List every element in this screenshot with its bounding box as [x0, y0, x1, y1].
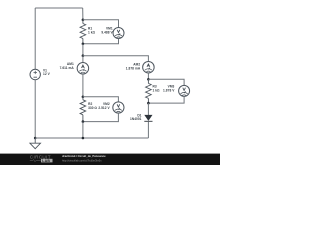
wire VM1 loop top [83, 20, 119, 28]
node R2 bottom junction [82, 120, 85, 123]
node AM row junction [82, 54, 85, 57]
label AM1 value [60, 62, 75, 70]
resistor R3 [146, 79, 152, 103]
ammeter AM2 [143, 61, 155, 73]
footer bar [0, 154, 220, 165]
svg-text:drachinisk / Circuit_de_Puissa: drachinisk / Circuit_de_Puissance [62, 154, 106, 158]
node bottom-left junction [34, 137, 37, 140]
svg-text:9.488 V: 9.488 V [101, 31, 113, 35]
wire bottom rail [35, 137, 148, 139]
label R1 value [88, 27, 96, 35]
resistor R2 [80, 97, 86, 122]
wire R2 bottom to rail [82, 122, 84, 138]
svg-text:7.611 mA: 7.611 mA [60, 66, 75, 70]
svg-text:1 kΩ: 1 kΩ [88, 31, 96, 35]
ground [30, 138, 41, 149]
wire AM2 bottom [147, 73, 149, 79]
wire top rail [35, 7, 82, 9]
resistor R1 [80, 20, 86, 44]
node R3 bottom junction [147, 102, 150, 105]
label R2 value [88, 102, 97, 110]
voltmeter VM3 [179, 85, 190, 96]
label V1 value [43, 68, 51, 76]
node R2 top junction [82, 96, 85, 99]
ammeter AM1 [82, 56, 84, 63]
node R1 bottom junction [82, 43, 85, 46]
diode D1 [144, 115, 152, 121]
label D1 value [130, 114, 142, 121]
svg-text:1N4001: 1N4001 [130, 117, 142, 121]
voltage source V1 [30, 69, 40, 79]
wire R1 bottom to AM row [82, 44, 84, 56]
svg-text:330 Ω: 330 Ω [88, 106, 97, 110]
svg-text:12 V: 12 V [43, 72, 51, 76]
label R3 value [153, 85, 161, 93]
label VM1 value [101, 27, 113, 35]
svg-text:1 kΩ: 1 kΩ [153, 89, 161, 93]
wire AM1 bottom to R2 junction [82, 74, 84, 97]
wire left vertical (top rail to V1) [34, 8, 36, 69]
voltmeter VM2 [113, 102, 124, 113]
node R1 top junction [82, 19, 85, 22]
wire VM3 loop bottom [148, 96, 184, 103]
label VM2 value [98, 102, 110, 110]
label AM2 value [126, 63, 141, 71]
node R3 top junction [147, 78, 150, 81]
wire VM3 loop top [148, 79, 184, 85]
wire R3 bottom to diode [147, 103, 149, 115]
wire R1 branch drop from rail [82, 8, 84, 20]
wire VM2 loop top [83, 97, 119, 102]
wire VM2 loop bottom [83, 113, 119, 122]
wire VM1 loop bottom [83, 39, 119, 44]
voltmeter VM1 [113, 28, 124, 39]
svg-text:1.878 mA: 1.878 mA [126, 67, 141, 71]
wire AM2 branch horizontal [83, 56, 148, 62]
svg-text:http://circuitlab.com/c/7bu5m3: http://circuitlab.com/c/7bu5m3br5x [62, 159, 102, 163]
svg-text:2.512 V: 2.512 V [98, 106, 110, 110]
wire diode to bottom rail [147, 121, 149, 138]
wire V1 to bottom junction [34, 80, 36, 138]
svg-text:LAB: LAB [42, 159, 50, 163]
CircuitLab logo [30, 155, 53, 163]
node rail junction at R2 [82, 137, 85, 140]
footer credit text [62, 154, 106, 162]
svg-text:1.878 V: 1.878 V [163, 89, 175, 93]
label VM3 value [163, 85, 175, 93]
